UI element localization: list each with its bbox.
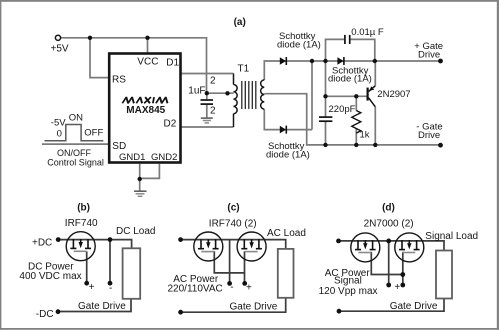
svg-text:(c): (c) [227, 202, 239, 213]
svg-text:Gate Drive: Gate Drive [390, 301, 438, 312]
svg-text:Drive: Drive [418, 50, 440, 61]
svg-text:220pF: 220pF [329, 104, 356, 115]
svg-text:D1: D1 [166, 57, 179, 68]
svg-text:MAX845: MAX845 [126, 105, 165, 116]
svg-text:+: + [89, 282, 95, 293]
svg-text:GND1: GND1 [119, 152, 145, 163]
svg-text:+5V: +5V [51, 43, 69, 54]
svg-text:IRF740 (2): IRF740 (2) [209, 219, 257, 230]
svg-text:Drive: Drive [418, 130, 440, 141]
svg-text:VCC: VCC [137, 56, 158, 67]
svg-text:Signal Load: Signal Load [425, 231, 478, 242]
svg-text:1uF: 1uF [188, 85, 205, 96]
svg-text:400 VDC max: 400 VDC max [19, 271, 81, 282]
svg-text:2N2907: 2N2907 [377, 89, 410, 100]
svg-text:OFF: OFF [84, 128, 103, 139]
svg-text:diode (1A): diode (1A) [277, 40, 321, 51]
svg-text:+: + [394, 282, 400, 293]
svg-text:Gate Drive: Gate Drive [78, 301, 126, 312]
svg-text:+DC: +DC [32, 238, 52, 249]
svg-text:-: - [109, 283, 112, 294]
svg-text:-DC: -DC [36, 309, 54, 320]
svg-text:IRF740: IRF740 [65, 218, 98, 229]
svg-text:ON: ON [69, 112, 83, 123]
svg-text:GND2: GND2 [151, 152, 177, 163]
svg-text:(b): (b) [77, 202, 90, 213]
svg-text:-: - [230, 282, 233, 293]
svg-text:diode (1A): diode (1A) [266, 150, 310, 161]
svg-text:T1: T1 [238, 63, 250, 74]
svg-text:AC Load: AC Load [267, 228, 306, 239]
svg-text:Gate Drive: Gate Drive [230, 301, 278, 312]
svg-text:2: 2 [210, 75, 216, 86]
svg-text:Signal: Signal [334, 275, 362, 286]
svg-text:D2: D2 [164, 118, 177, 129]
svg-text:-5V: -5V [51, 118, 66, 129]
svg-text:(a): (a) [234, 17, 246, 28]
svg-text:0: 0 [57, 129, 62, 140]
svg-text:(d): (d) [382, 202, 395, 213]
svg-text:220/110VAC: 220/110VAC [168, 284, 223, 295]
svg-text:+: + [246, 282, 252, 293]
svg-text:RS: RS [112, 74, 126, 85]
svg-text:1k: 1k [360, 129, 370, 140]
svg-text:diode (1A): diode (1A) [328, 73, 372, 84]
svg-text:2: 2 [210, 105, 216, 116]
svg-text:0.01µ F: 0.01µ F [351, 27, 384, 38]
svg-text:120 Vpp max: 120 Vpp max [319, 286, 378, 297]
svg-text:Control Signal: Control Signal [47, 157, 104, 167]
svg-text:DC Load: DC Load [116, 226, 155, 237]
svg-text:SD: SD [112, 141, 126, 152]
svg-text:2N7000 (2): 2N7000 (2) [364, 219, 414, 230]
